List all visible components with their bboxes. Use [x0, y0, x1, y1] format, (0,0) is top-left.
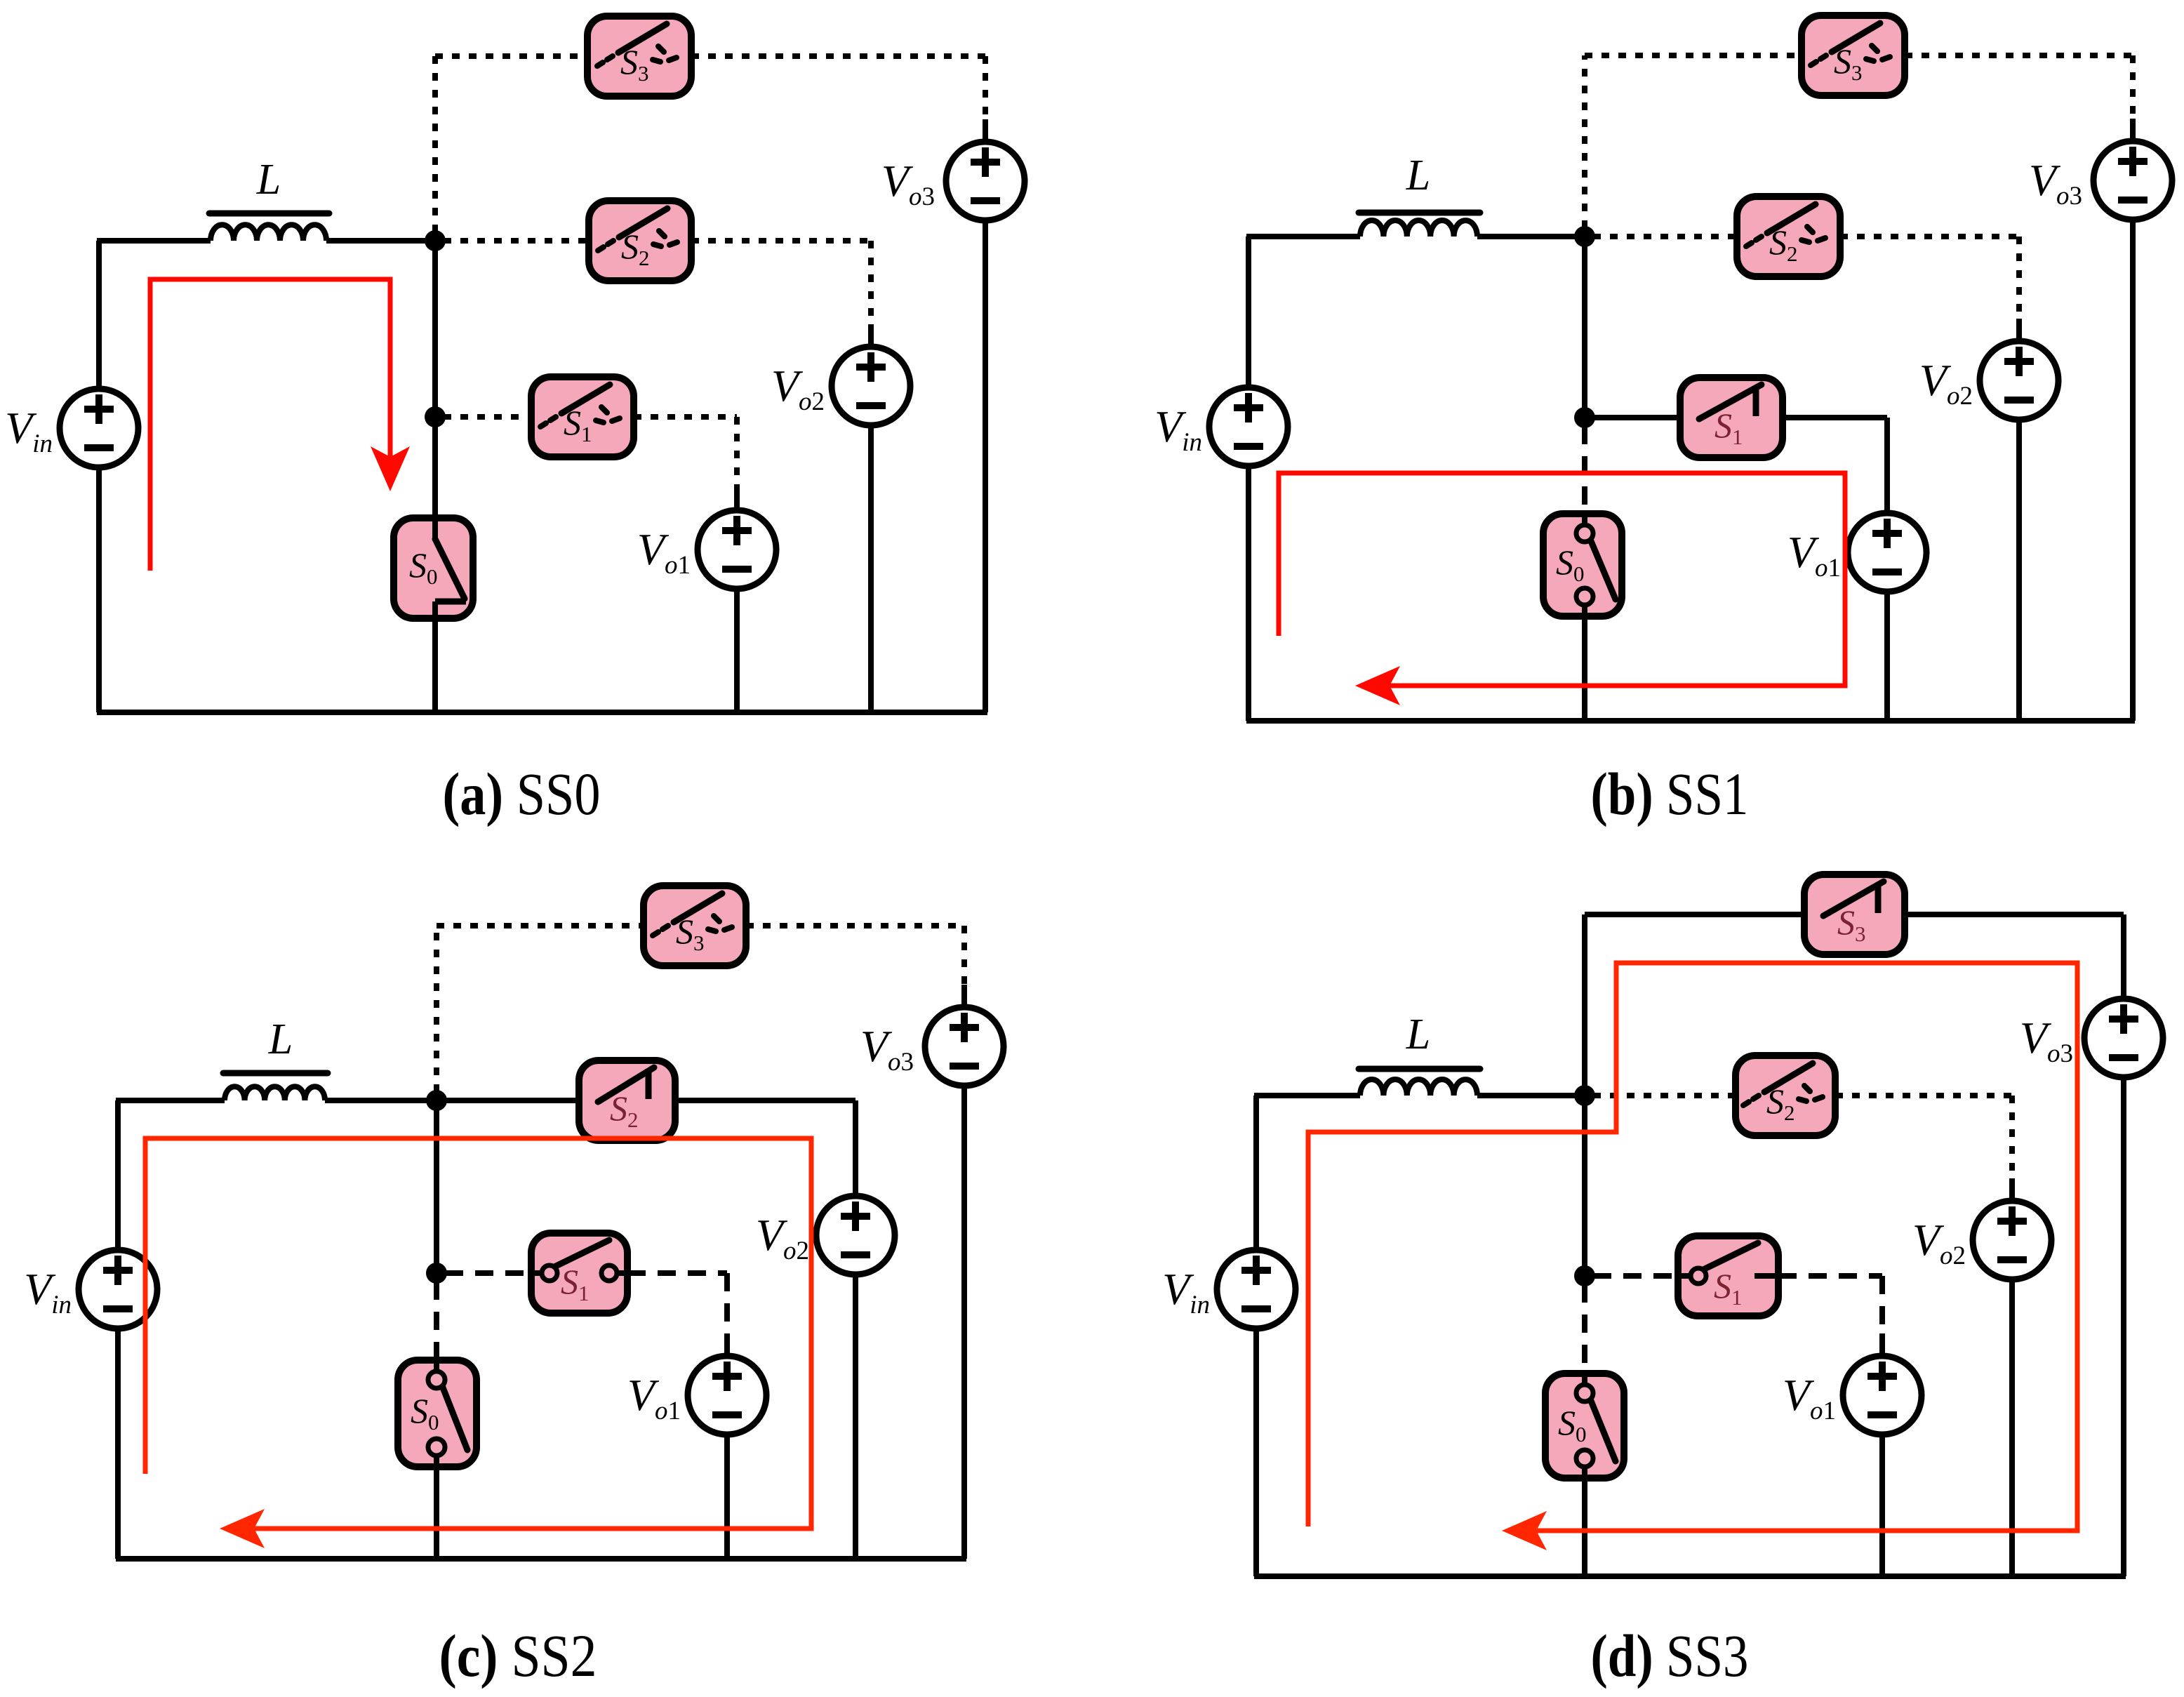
wire S3 left lead (c): [437, 923, 644, 929]
wire node1-node2 (a): [432, 241, 438, 417]
wire bottom rail (a): [97, 710, 987, 715]
svg-text:(b) SS1: (b) SS1: [1591, 760, 1749, 827]
source Vo2 (c): [816, 1196, 895, 1275]
switch S0 (c): [398, 1360, 477, 1467]
wire S3 left lead (d): [1585, 912, 1804, 917]
wire S3 right lead (c): [746, 923, 964, 929]
node 1 (b): [1574, 226, 1595, 247]
source Vo1 (d): [1843, 1356, 1922, 1435]
wire node2 to S0 (c): [434, 1282, 439, 1360]
wire Vin-left top (d): [1253, 1096, 1259, 1250]
inductor L (c): [225, 1086, 325, 1100]
wire S2 to Vo2 drop (c): [853, 1100, 858, 1175]
source Vo2 (d): [1973, 1201, 2051, 1279]
wire Vin-left bottom (b): [1246, 466, 1251, 721]
wire bottom rail (b): [1246, 718, 2135, 724]
inductor L (b): [1360, 220, 1477, 237]
wire S3 right lead (b): [1905, 53, 2133, 58]
wire S1 right lead (d): [1778, 1273, 1882, 1279]
switch S2 (b): [1737, 197, 1840, 277]
wire Vo3 to rail (d): [2121, 1077, 2126, 1576]
node 1 (c): [426, 1090, 447, 1111]
wire S3 right lead (a): [691, 53, 985, 59]
wire S1 to Vo1 drop (d): [1879, 1276, 1885, 1335]
source Vo1 (a): [698, 510, 776, 589]
wire Vo1 to rail (c): [724, 1435, 730, 1559]
source Vo3 (c): [925, 1007, 1004, 1086]
red current path (a): [150, 279, 390, 571]
svg-text:(c) SS2: (c) SS2: [439, 1622, 597, 1689]
wire S0 to rail (b): [1582, 616, 1587, 721]
wire node1 up to S3 row (a): [432, 56, 438, 232]
wire node2 to S0 (a): [432, 425, 438, 518]
node 1 (d): [1574, 1085, 1595, 1106]
wire Vo3 to rail (c): [961, 1086, 967, 1559]
node 1 (a): [425, 230, 446, 251]
wire inductor to node1 (a): [326, 238, 435, 244]
wire node1 up to S3 row (b): [1582, 55, 1587, 228]
wire node2 to S0 (b): [1582, 426, 1587, 514]
wire S3 to Vo3 drop (c): [961, 926, 967, 986]
wire S2 to Vo2 drop (b): [2016, 237, 2022, 320]
switch S1 (c): [531, 1233, 627, 1313]
svg-text:L: L: [256, 156, 281, 204]
source Vin (a): [60, 389, 138, 467]
wire top-left to inductor (d): [1254, 1093, 1360, 1098]
wire S0 to rail (c): [434, 1467, 439, 1559]
wire node1-node2 (c): [434, 1100, 439, 1273]
wire node1 up to S3 row (c): [434, 926, 439, 1092]
wire S3 right lead (d): [1905, 912, 2124, 917]
switch S3 (c): [644, 886, 746, 966]
svg-text:L: L: [1406, 1011, 1430, 1058]
wire S3 left lead (b): [1585, 53, 1802, 58]
svg-text:(a) SS0: (a) SS0: [443, 760, 601, 827]
wire Vo1 to rail (b): [1884, 592, 1890, 721]
source Vo2 (a): [832, 347, 910, 425]
source Vo1 (b): [1848, 513, 1926, 592]
wire Vo2 to rail (a): [868, 425, 874, 712]
source Vo1 (c): [688, 1356, 766, 1435]
wire S1 to Vo1 drop (b): [1884, 418, 1890, 492]
wire S2 right lead (d): [1835, 1093, 2012, 1098]
wire S1 left lead (a): [444, 414, 531, 420]
wire Vo2 to rail (b): [2016, 420, 2022, 721]
source Vin (c): [79, 1250, 157, 1329]
wire S1 to Vo1 drop (a): [734, 417, 740, 489]
wire S1 left lead (c): [445, 1270, 531, 1276]
wire Vo1 to rail (a): [734, 589, 740, 712]
wire S1 right lead (c): [627, 1270, 727, 1276]
wire inductor to node1 (b): [1477, 234, 1585, 239]
svg-text:L: L: [268, 1016, 293, 1063]
wire S2 right lead (a): [691, 238, 871, 244]
node 2 (b): [1574, 407, 1595, 428]
wire Vin-left bottom (a): [96, 467, 102, 712]
svg-text:(d) SS3: (d) SS3: [1591, 1622, 1749, 1689]
wire inductor to node1 (c): [325, 1098, 437, 1103]
red current path (d): [1308, 963, 2077, 1531]
wire Vo1 to rail (d): [1879, 1435, 1885, 1576]
wire S2 left lead (b): [1593, 234, 1737, 239]
inductor L (a): [211, 225, 326, 241]
source Vin (b): [1209, 387, 1288, 466]
node 2 (d): [1574, 1265, 1595, 1286]
wire S2 left lead (d): [1593, 1093, 1736, 1098]
source Vo3 (d): [2084, 999, 2163, 1077]
red current path (c): [145, 1138, 811, 1529]
switch S3 (b): [1802, 15, 1905, 95]
wire node2 to S0 (d): [1582, 1284, 1587, 1373]
switch S1 (a): [531, 377, 634, 457]
wire bottom rail (d): [1254, 1573, 2126, 1579]
svg-text:L: L: [1406, 152, 1430, 199]
switch S1 (d): [1678, 1236, 1778, 1316]
wire Vo2 to rail (c): [853, 1275, 858, 1559]
wire Vin-left top (c): [115, 1100, 121, 1250]
wire Vo2 to rail (d): [2009, 1279, 2015, 1576]
wire Vin-left top (b): [1246, 237, 1251, 387]
wire S1 right lead (a): [634, 414, 737, 420]
wire S3 to Vo3 drop (a): [983, 56, 988, 121]
wire S2 left lead (c): [445, 1098, 579, 1103]
switch S0 (a): [394, 518, 473, 618]
wire node1-node2 (d): [1582, 1096, 1587, 1276]
switch S0 (b): [1543, 514, 1622, 616]
wire S2 right lead (b): [1840, 234, 2019, 239]
switch S3 (a): [587, 16, 691, 96]
switch S2 (a): [589, 201, 691, 281]
switch S1 (b): [1680, 378, 1783, 458]
wire node1 up to S3 row (d): [1582, 914, 1587, 1087]
source Vo3 (a): [946, 142, 1025, 220]
switch S3 (d): [1804, 874, 1905, 954]
source Vo3 (b): [2093, 141, 2172, 220]
wire Vin-left top (a): [96, 241, 102, 389]
wire S3 to Vo3 drop (d): [2121, 914, 2126, 978]
source Vo2 (b): [1980, 341, 2058, 420]
wire Vin-left bottom (d): [1253, 1329, 1259, 1576]
wire top-left to inductor (a): [97, 238, 211, 244]
wire bottom rail (c): [116, 1556, 966, 1562]
switch S2 (c): [579, 1060, 675, 1140]
wire S0 to rail (a): [432, 618, 438, 712]
red current path (b): [1279, 473, 1845, 686]
node 2 (c): [426, 1263, 447, 1284]
node 2 (a): [425, 406, 446, 427]
wire Vin-left bottom (c): [115, 1329, 121, 1559]
wire S1 left lead (d): [1593, 1273, 1678, 1279]
switch S2 (d): [1736, 1056, 1835, 1136]
wire Vo3 to rail (b): [2130, 220, 2136, 721]
switch S0 (d): [1545, 1373, 1624, 1478]
wire S1 right lead (b): [1783, 415, 1887, 420]
wire S1 left lead (b): [1593, 415, 1680, 420]
inductor L (d): [1360, 1079, 1477, 1096]
wire S3 left lead (a): [435, 53, 587, 59]
wire inductor to node1 (d): [1477, 1093, 1585, 1098]
wire S3 to Vo3 drop (b): [2130, 55, 2136, 120]
wire Vo3 to rail (a): [983, 220, 988, 712]
wire S0 to rail (d): [1582, 1478, 1587, 1576]
wire S2 left lead (a): [444, 238, 589, 244]
wire top-left to inductor (c): [116, 1098, 225, 1103]
wire top-left to inductor (b): [1246, 234, 1360, 239]
wire S2 to Vo2 drop (d): [2009, 1096, 2015, 1180]
wire S2 to Vo2 drop (a): [868, 241, 874, 326]
wire node1-node2 (b): [1582, 237, 1587, 418]
wire S1 to Vo1 drop (c): [724, 1273, 730, 1335]
wire S2 right lead (c): [675, 1098, 855, 1103]
source Vin (d): [1217, 1250, 1296, 1329]
